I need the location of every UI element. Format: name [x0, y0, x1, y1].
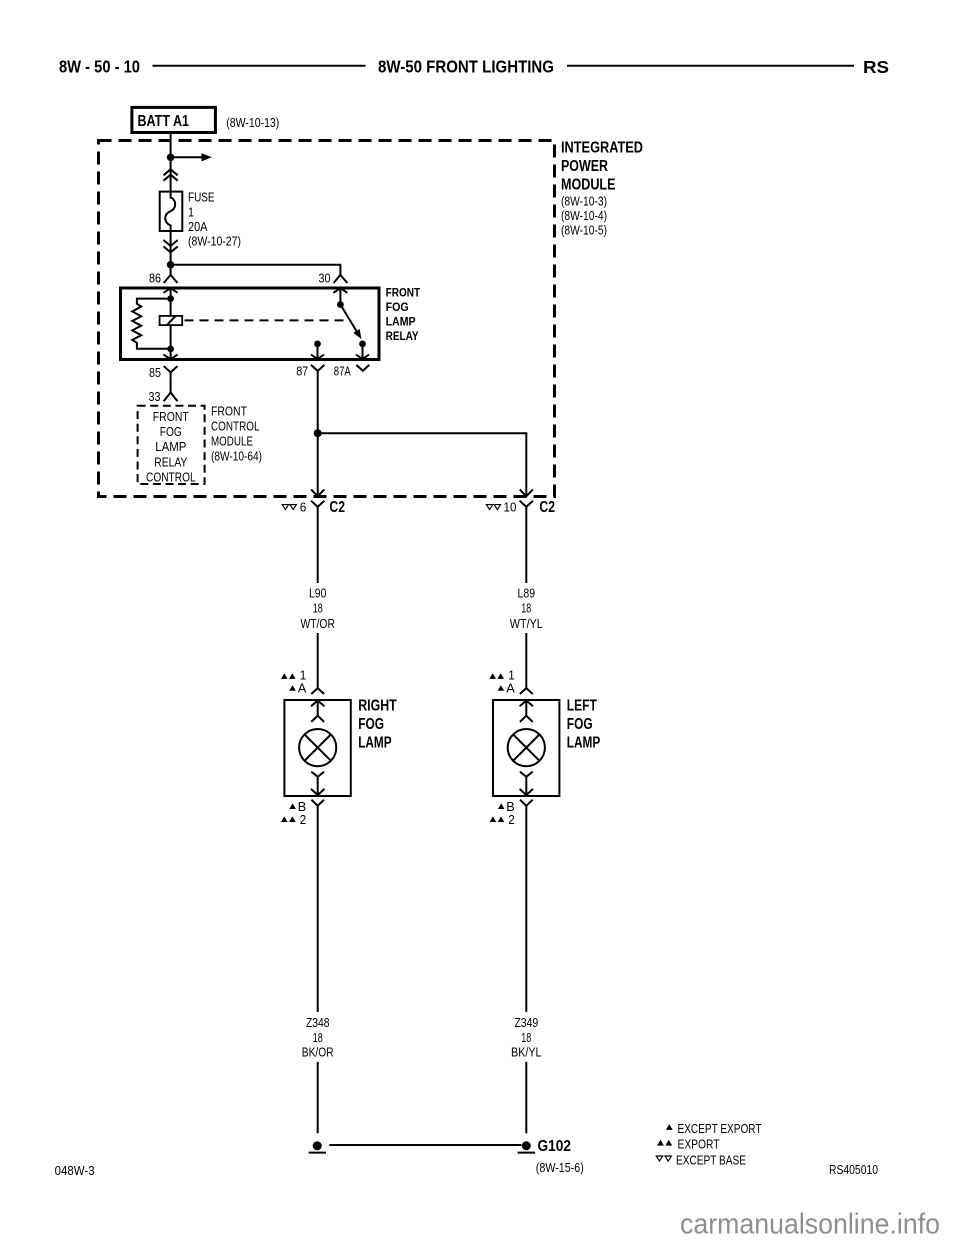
- front fog lamp relay control dashed box: [138, 406, 205, 484]
- wire left lamp to ground: [525, 811, 527, 1012]
- left fog lamp box: [493, 700, 559, 796]
- legend marker export: [657, 1140, 664, 1146]
- svg-text:1: 1: [188, 204, 194, 219]
- left lamp internal pin top: [520, 701, 533, 722]
- svg-text:(8W-10-4): (8W-10-4): [561, 208, 607, 223]
- header rule right: [567, 65, 854, 67]
- svg-text:FUSE: FUSE: [188, 189, 215, 204]
- right lamp internal pin bottom: [311, 772, 324, 796]
- relay 87 contact node: [314, 341, 321, 348]
- node relay coil bottom: [167, 346, 174, 353]
- right lamp pin A marker: [289, 685, 296, 691]
- svg-text:RELAY: RELAY: [154, 454, 187, 469]
- svg-text:(8W-10-27): (8W-10-27): [188, 233, 241, 248]
- relay coil: [160, 316, 183, 325]
- relay mechanical link dashed: [185, 319, 349, 321]
- C2 pin 6 connector: [311, 501, 324, 512]
- left fog lamp bulb: [508, 729, 545, 766]
- ground symbol right G102: [522, 1141, 531, 1150]
- svg-text:L89: L89: [518, 586, 536, 601]
- relay 87A internal pin: [362, 344, 364, 359]
- wire junction down to pin 86: [170, 265, 172, 275]
- svg-text:WT/YL: WT/YL: [510, 616, 543, 631]
- off-page connector double chevron up: [164, 169, 178, 180]
- relay coil wire: [170, 288, 172, 359]
- wire Z348 lower: [317, 1062, 319, 1133]
- svg-text:LAMP: LAMP: [386, 315, 416, 329]
- fuse F1 body: [160, 192, 183, 231]
- relay 86 internal pin chevron: [164, 288, 178, 293]
- relay suppression resistor: [132, 299, 170, 349]
- wire pin 30 to common: [339, 288, 341, 304]
- svg-text:RIGHT: RIGHT: [358, 698, 397, 715]
- svg-text:C2: C2: [329, 499, 345, 516]
- right lamp pin 2 marker: [281, 816, 288, 822]
- svg-text:(8W-10-13): (8W-10-13): [226, 115, 279, 130]
- svg-text:FOG: FOG: [160, 424, 182, 439]
- svg-text:8W-50 FRONT LIGHTING: 8W-50 FRONT LIGHTING: [378, 57, 554, 77]
- svg-text:18: 18: [313, 1030, 323, 1045]
- svg-text:Z348: Z348: [306, 1015, 330, 1030]
- svg-text:CONTROL: CONTROL: [146, 469, 196, 484]
- svg-text:CONTROL: CONTROL: [211, 419, 260, 434]
- right lamp pin B marker: [289, 803, 296, 809]
- C2 pin 10 arrow: [520, 489, 533, 496]
- svg-text:(8W-10-5): (8W-10-5): [561, 223, 607, 238]
- legend marker except base: [656, 1156, 663, 1161]
- svg-text:Z349: Z349: [514, 1015, 538, 1030]
- right fog lamp box: [284, 700, 350, 796]
- svg-text:C2: C2: [539, 499, 555, 516]
- wire arrow branch to other circuits: [171, 156, 203, 158]
- svg-text:18: 18: [521, 1030, 531, 1045]
- right fog lamp bulb: [299, 729, 336, 766]
- svg-text:048W-3: 048W-3: [55, 1164, 95, 1178]
- wire C2-6 down: [317, 512, 319, 584]
- left lamp pin B connector: [520, 800, 533, 812]
- battery feed box BATT A1: [132, 107, 216, 132]
- left lamp pin A chevron: [520, 688, 533, 694]
- wire Z349 lower: [525, 1062, 527, 1133]
- wire branch to pin 30: [171, 265, 341, 275]
- svg-text:85: 85: [149, 365, 161, 380]
- relay 30 internal pin chevron: [333, 288, 347, 293]
- relay 87 internal pin: [317, 344, 319, 359]
- svg-text:RELAY: RELAY: [386, 329, 419, 343]
- svg-text:LAMP: LAMP: [155, 439, 186, 454]
- node relay common: [337, 301, 344, 308]
- svg-text:L90: L90: [309, 586, 327, 601]
- svg-text:A: A: [506, 680, 515, 695]
- svg-text:(8W-10-64): (8W-10-64): [211, 449, 262, 464]
- relay K box: [121, 288, 380, 360]
- wire branch to left fog lamp: [318, 433, 527, 496]
- svg-text:EXCEPT BASE: EXCEPT BASE: [676, 1152, 746, 1167]
- svg-text:G102: G102: [538, 1138, 572, 1155]
- integrated power module dashed box: [99, 141, 555, 497]
- right lamp pin A chevron: [311, 688, 324, 694]
- svg-text:2: 2: [300, 812, 307, 827]
- wire fuse to junction: [170, 231, 172, 265]
- left lamp internal pin bottom: [520, 772, 533, 796]
- svg-text:FOG: FOG: [386, 300, 409, 314]
- svg-text:WT/OR: WT/OR: [301, 616, 335, 631]
- node battery junction: [167, 154, 175, 162]
- svg-text:FOG: FOG: [567, 716, 593, 733]
- svg-text:18: 18: [313, 601, 323, 616]
- svg-text:MODULE: MODULE: [561, 177, 616, 194]
- wire L90 to right fog lamp: [317, 633, 319, 688]
- svg-text:LAMP: LAMP: [567, 735, 601, 752]
- node fog feed junction: [314, 429, 322, 437]
- svg-text:FRONT: FRONT: [211, 404, 247, 419]
- svg-text:BK/YL: BK/YL: [511, 1044, 542, 1059]
- ground symbol left: [313, 1141, 322, 1150]
- relay switch arm: [340, 305, 357, 334]
- left lamp pin A marker: [498, 685, 505, 691]
- left lamp pin B marker: [498, 803, 505, 809]
- svg-text:86: 86: [149, 271, 161, 286]
- relay 87A contact node: [359, 341, 366, 348]
- node fuse output junction: [167, 261, 175, 269]
- C2 pin 6 arrow: [311, 489, 324, 496]
- svg-text:33: 33: [149, 389, 161, 404]
- svg-text:FRONT: FRONT: [153, 409, 189, 424]
- svg-text:EXPORT: EXPORT: [678, 1137, 720, 1152]
- right lamp pin 1 marker: [281, 673, 288, 679]
- right lamp internal pin top: [311, 701, 324, 722]
- svg-text:30: 30: [319, 271, 331, 286]
- svg-text:MODULE: MODULE: [211, 434, 253, 449]
- svg-text:LEFT: LEFT: [567, 698, 597, 715]
- svg-text:RS: RS: [863, 57, 889, 77]
- svg-text:2: 2: [508, 812, 515, 827]
- C2 pin 10 connector: [520, 501, 533, 512]
- svg-text:A: A: [298, 680, 307, 695]
- svg-text:(8W-15-6): (8W-15-6): [536, 1161, 584, 1175]
- ground bus wire: [329, 1144, 521, 1146]
- svg-text:18: 18: [521, 601, 531, 616]
- right lamp pin B connector: [311, 800, 324, 812]
- svg-text:(8W-10-3): (8W-10-3): [561, 194, 607, 209]
- svg-text:POWER: POWER: [561, 158, 608, 175]
- svg-text:BATT A1: BATT A1: [138, 113, 190, 130]
- node relay coil top: [167, 295, 174, 302]
- legend marker except export: [666, 1124, 673, 1130]
- left lamp pin 2 marker: [490, 816, 497, 822]
- wire 85 to 33: [170, 378, 172, 393]
- svg-text:BK/OR: BK/OR: [302, 1044, 334, 1059]
- svg-text:EXCEPT EXPORT: EXCEPT EXPORT: [678, 1121, 762, 1136]
- svg-text:8W - 50 - 10: 8W - 50 - 10: [59, 57, 140, 77]
- left lamp pin 1 marker: [489, 673, 496, 679]
- svg-text:INTEGRATED: INTEGRATED: [561, 139, 643, 156]
- wire right lamp to ground: [317, 811, 319, 1012]
- svg-text:20A: 20A: [188, 219, 208, 234]
- svg-text:10: 10: [504, 499, 517, 514]
- wire BATT A1 down to fuse: [170, 134, 172, 192]
- header rule left: [153, 65, 366, 67]
- wire L89 to left fog lamp: [525, 633, 527, 688]
- svg-text:6: 6: [300, 499, 307, 514]
- off-page connector double chevron down: [164, 240, 178, 252]
- wire C2-10 down: [525, 512, 527, 584]
- svg-text:FRONT: FRONT: [386, 285, 421, 299]
- svg-text:RS405010: RS405010: [829, 1162, 878, 1177]
- svg-text:FOG: FOG: [358, 716, 384, 733]
- svg-text:87A: 87A: [334, 364, 351, 379]
- svg-text:87: 87: [296, 364, 308, 379]
- relay 85 internal pin chevron: [164, 355, 178, 360]
- wire 87 down to C2: [317, 376, 319, 497]
- svg-text:LAMP: LAMP: [358, 735, 392, 752]
- svg-text:carmanualsonline.info: carmanualsonline.info: [680, 1209, 940, 1241]
